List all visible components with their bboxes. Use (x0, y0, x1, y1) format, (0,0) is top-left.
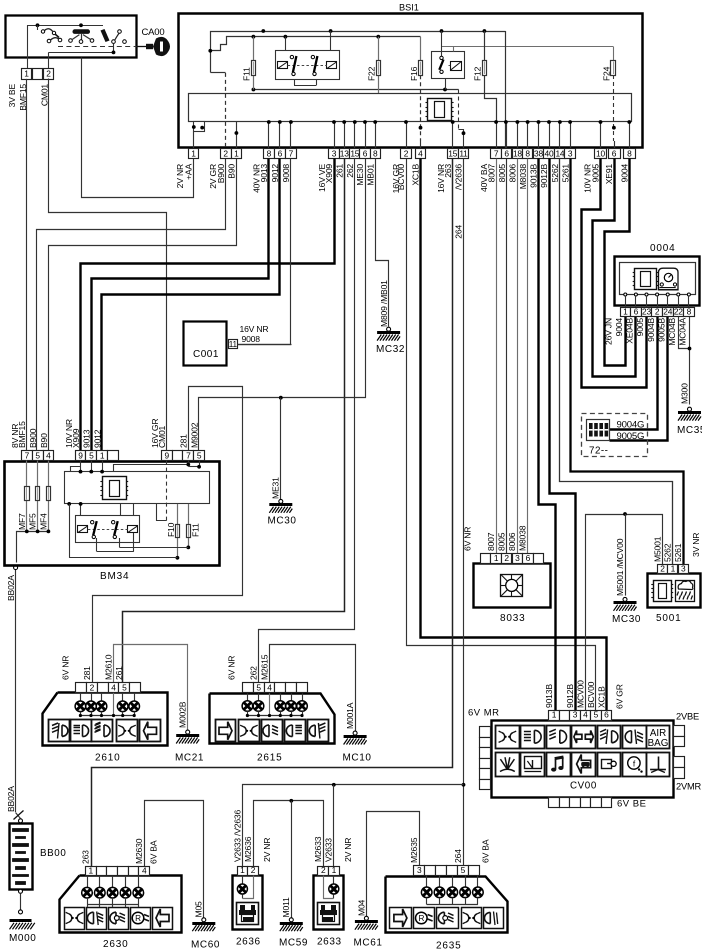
wire 9004 (thick) (605, 159, 630, 366)
svg-text:8033: 8033 (500, 613, 525, 624)
svg-text:M05: M05 (194, 901, 204, 918)
ground MC59 (M011) (289, 918, 293, 922)
svg-text:72--: 72-- (589, 446, 608, 457)
BM34 inner logic box (65, 472, 210, 504)
wire ME31 drop to ground MC30 (280, 398, 282, 500)
BSI connector band (189, 94, 632, 122)
svg-text:2615: 2615 (257, 753, 282, 764)
CV00 top pin row (1,3,4,5,6) (549, 711, 560, 721)
svg-text:262: 262 (249, 666, 259, 680)
svg-text:14: 14 (555, 148, 564, 158)
svg-text:M9002: M9002 (190, 422, 200, 448)
2635 icon reversing lamp (414, 908, 435, 929)
wire 9012B (thick) (550, 159, 576, 711)
CV00 right connector cells 2VMR (674, 757, 685, 768)
svg-text:5: 5 (89, 450, 94, 460)
svg-text:5261: 5261 (673, 543, 683, 562)
wire 5262 (560, 159, 673, 565)
wire 262 (259, 159, 355, 683)
wire 263 (92, 159, 453, 867)
svg-text:26V JN: 26V JN (604, 318, 614, 345)
svg-text:11: 11 (229, 340, 238, 349)
2610 icon turn signal left (140, 720, 161, 742)
2615 icon fog lamp right (308, 720, 329, 742)
ground MC60 (M05) (202, 918, 206, 922)
2630 icon position lamp (65, 908, 85, 930)
svg-text:1: 1 (24, 69, 29, 79)
BM34 pin stubs to logic box (80, 461, 82, 472)
svg-text:5: 5 (594, 710, 599, 720)
ground MC21 (M002B) (186, 730, 190, 734)
svg-text:R: R (418, 914, 424, 923)
wire XE91 (thick) (593, 159, 636, 377)
svg-text:40: 40 (545, 148, 554, 158)
svg-text:24: 24 (663, 306, 672, 316)
svg-text:M2635: M2635 (409, 837, 419, 863)
svg-text:MC04B: MC04B (667, 318, 677, 346)
svg-text:6V BE: 6V BE (617, 799, 646, 810)
svg-text:2: 2 (321, 865, 326, 875)
2610 icon low beam (71, 720, 92, 742)
chip icon in 0004 (635, 269, 657, 290)
svg-text:4: 4 (142, 865, 147, 875)
CV00 right connector cells 2VBE (674, 726, 685, 737)
switch module CM01/BMF15 block (6, 16, 137, 58)
wire 281 (93, 387, 243, 683)
svg-text:9008: 9008 (242, 334, 261, 344)
svg-text:8: 8 (267, 148, 272, 158)
svg-text:ME30: ME30 (355, 164, 365, 186)
svg-text:3: 3 (515, 553, 520, 563)
ground MC35 (M300) (688, 407, 692, 411)
fuse MF5 (37, 461, 39, 532)
2635 icon turn signal right (390, 908, 412, 929)
fuse F11 (BM34) (188, 504, 190, 548)
svg-text:9004G: 9004G (617, 420, 645, 431)
ground M000 (19, 910, 23, 914)
svg-text:5: 5 (197, 450, 202, 460)
svg-text:M5001: M5001 (652, 536, 662, 562)
2615 internal bus (247, 715, 302, 717)
2610 bulbs (80, 693, 82, 701)
svg-text:MC30: MC30 (612, 614, 641, 625)
2635 icon rear fog (484, 908, 504, 929)
svg-text:F22: F22 (367, 66, 377, 81)
svg-text:CM01: CM01 (157, 425, 167, 448)
CV00 icon rear fog (623, 726, 647, 749)
BSI pin row group 16V GR (pins 2,4) (401, 149, 412, 159)
0004 pin stubs (624, 293, 627, 296)
svg-text:0004: 0004 (650, 243, 675, 254)
wire 261 (123, 159, 345, 683)
svg-text:2630: 2630 (103, 939, 128, 950)
svg-text:6: 6 (604, 710, 609, 720)
svg-text:B900: B900 (216, 164, 226, 184)
svg-text:MC30: MC30 (268, 516, 297, 527)
svg-text:MC61: MC61 (354, 938, 383, 949)
svg-text:6V NR: 6V NR (227, 656, 237, 680)
svg-text:C001: C001 (193, 349, 219, 360)
wire XC1B (thick) (421, 159, 607, 711)
svg-text:2: 2 (46, 69, 51, 79)
svg-text:11: 11 (459, 148, 468, 158)
svg-text:2633: 2633 (317, 937, 342, 948)
module 2636 outline (233, 876, 263, 930)
wire 264 / V2636 / V2633 net (463, 159, 465, 866)
wire to key switch (dashed) (58, 46, 137, 48)
svg-text:5: 5 (122, 683, 127, 693)
switch S2 (wiper stalk) (73, 29, 91, 34)
svg-text:5: 5 (256, 683, 261, 693)
wire ME30 / M9002 ground net (199, 159, 366, 451)
module 0004 outline (615, 257, 700, 306)
svg-text:2: 2 (660, 564, 665, 574)
svg-text:1: 1 (191, 148, 196, 158)
svg-text:7: 7 (289, 148, 294, 158)
BSI pin row group 2V GR (pins 2,1) (221, 149, 232, 159)
svg-text:9005: 9005 (635, 318, 645, 337)
BM34 internal stub 281/M9002 (114, 465, 189, 472)
svg-text:6: 6 (612, 148, 617, 158)
BSI pin row group 40V BA (pins 7,6,18,8,38,40,14,3) (491, 149, 502, 159)
module 2635 outline (386, 877, 508, 933)
wire BB02A battery feed (15, 570, 17, 812)
wire battery to ground M000 (19, 889, 23, 893)
svg-text:9012B: 9012B (565, 684, 575, 708)
svg-text:9012: 9012 (93, 429, 103, 448)
fuse F22 (378, 37, 380, 93)
2615 icon turn signal right (216, 720, 236, 742)
svg-text:MB01: MB01 (365, 164, 375, 186)
svg-text:F24: F24 (602, 66, 612, 81)
svg-text:XC1B: XC1B (596, 686, 606, 708)
svg-text:9013B: 9013B (544, 684, 554, 708)
svg-text:MC60: MC60 (191, 940, 220, 951)
svg-text:MC10: MC10 (343, 753, 372, 764)
svg-text:7: 7 (25, 450, 30, 460)
CV00 icon AIRBAG (647, 726, 670, 749)
svg-text:M2615: M2615 (260, 654, 270, 680)
svg-text:8006: 8006 (508, 164, 518, 183)
0004 pin row (1,6,23,2,24,22,8) (621, 308, 631, 317)
svg-text:V2633 /V2636: V2633 /V2636 (232, 810, 242, 862)
rain icon in 5001 (676, 581, 695, 602)
svg-text:5001: 5001 (656, 613, 681, 624)
svg-text:BB02A: BB02A (6, 575, 16, 601)
svg-text:263: 263 (443, 164, 453, 178)
wire M2635 / M04 to MC61 (367, 812, 420, 918)
lamp icon in 8033 (501, 575, 523, 597)
svg-text:3: 3 (573, 710, 578, 720)
svg-text:F16: F16 (409, 66, 419, 81)
wire BCV00 (407, 159, 596, 711)
wire 8007 (496, 159, 498, 554)
2610 icon position lamp (117, 720, 138, 742)
svg-text:8007: 8007 (486, 532, 496, 551)
svg-text:5262: 5262 (663, 543, 673, 562)
svg-text:4: 4 (267, 683, 272, 693)
wire internal top rail (27, 25, 103, 27)
svg-text:6: 6 (526, 553, 531, 563)
svg-text:8005: 8005 (496, 532, 506, 551)
CV00 icon rear wiper (521, 753, 545, 777)
BSI pin row group 16V NR (pins 15,11) (448, 149, 459, 159)
svg-text:2: 2 (223, 148, 228, 158)
svg-text:1: 1 (623, 306, 628, 316)
svg-text:6V BA: 6V BA (481, 839, 491, 863)
module CV00 outline (492, 721, 674, 798)
svg-text:4: 4 (111, 683, 116, 693)
svg-text:2V NR: 2V NR (262, 838, 272, 862)
wire M2636 / M2633 / M011 ground net (254, 801, 324, 867)
2633 pin row (2,1) (318, 867, 329, 876)
svg-text:M2630: M2630 (134, 838, 144, 864)
wire MB01 to MC32 (376, 159, 389, 327)
CV00 icon chime (547, 753, 571, 777)
wire B90 (49, 159, 237, 451)
svg-text:9013: 9013 (82, 429, 92, 448)
BM34 pin row group 281/M9002 (pins 7,5) (183, 451, 194, 461)
2630 icon turn signal left (153, 908, 173, 930)
wire M011 drop to MC59 (291, 801, 293, 919)
BSI internal rail R4 (253, 89, 458, 91)
wire 9004B / 9004G (thick) (610, 317, 658, 430)
svg-text:264: 264 (453, 849, 463, 863)
svg-text:38: 38 (534, 148, 543, 158)
wire 9008 riser (238, 344, 292, 346)
svg-text:XE91: XE91 (604, 164, 614, 185)
svg-text:B90: B90 (39, 433, 49, 448)
svg-text:M000: M000 (9, 933, 36, 944)
svg-text:X909: X909 (324, 164, 334, 184)
module 8033 (474, 564, 551, 608)
wire MF bus to BB02A (17, 532, 49, 563)
2630 icon tail lamp (109, 908, 129, 930)
svg-text:F11: F11 (191, 523, 201, 537)
svg-text:CV00: CV00 (570, 781, 597, 792)
svg-text:6: 6 (634, 306, 639, 316)
svg-text:9012B: 9012B (539, 164, 549, 188)
svg-text:M001A: M001A (345, 702, 355, 729)
relay box A (BSI) (285, 37, 287, 51)
svg-text:M2633: M2633 (313, 836, 323, 862)
BSI pin stubs and junctions (268, 122, 270, 148)
wire 9005 (thick) (582, 159, 647, 388)
connector C001 (184, 322, 227, 366)
svg-text:9004B: 9004B (646, 318, 656, 342)
wire CM01 (49, 79, 167, 451)
module 2615 outline (210, 694, 335, 744)
svg-text:9008: 9008 (281, 164, 291, 183)
wire 8006 (517, 159, 519, 554)
svg-text:M8038: M8038 (518, 164, 528, 190)
wire +AA (82, 58, 194, 198)
wires below relay A (294, 80, 296, 86)
CV00 icon f-regulator (623, 753, 647, 777)
svg-text:BMF15: BMF15 (17, 421, 27, 448)
svg-text:XE04B: XE04B (625, 318, 635, 344)
svg-text:2635: 2635 (436, 941, 461, 951)
wire M5001 / MCV00 net (586, 515, 663, 711)
wire 9013 (thick) (92, 159, 269, 451)
fuse MF7 (26, 461, 28, 532)
svg-text:261: 261 (114, 666, 124, 680)
wire relay B to pin 11 (dashed) (445, 79, 447, 90)
gauge icon in 0004 (659, 268, 679, 290)
2633 pump icon (318, 903, 340, 925)
svg-text:M04: M04 (356, 899, 366, 916)
svg-text:MCV00: MCV00 (575, 680, 585, 708)
2610 internal bus (80, 715, 134, 717)
2636 pump icon (237, 903, 259, 925)
svg-text:1: 1 (240, 865, 245, 875)
svg-text:1: 1 (552, 710, 557, 720)
2635 internal bus (427, 904, 478, 906)
svg-text:6: 6 (504, 148, 509, 158)
module 2610 outline (43, 693, 168, 746)
svg-text:8: 8 (525, 148, 530, 158)
2615 bulbs (247, 693, 249, 701)
svg-text:MC04A: MC04A (678, 318, 688, 346)
svg-text:9: 9 (164, 450, 169, 460)
wire 9008 to C001 (238, 159, 291, 345)
wire CM01 internal (dashed) (166, 461, 168, 521)
svg-text:5262: 5262 (550, 164, 560, 183)
ground MC30 (ME31) (279, 499, 283, 503)
svg-text:6V BA: 6V BA (148, 840, 158, 864)
fuse F10 (BM34) (177, 504, 179, 558)
svg-text:M2610: M2610 (103, 654, 113, 680)
svg-text:MC32: MC32 (376, 344, 405, 355)
svg-text:BB02A: BB02A (6, 786, 16, 812)
svg-text:R: R (135, 914, 141, 923)
svg-text:6: 6 (278, 148, 283, 158)
svg-text:CA00: CA00 (142, 27, 165, 38)
svg-text:2V NR: 2V NR (343, 838, 353, 862)
BM34 pin row group 10V NR (pins 9,5,1) (76, 451, 86, 461)
CV00 icon low beam (521, 726, 545, 749)
svg-text:2VBE: 2VBE (676, 712, 699, 722)
svg-text:13: 13 (340, 148, 349, 158)
2630 bulbs (87, 876, 89, 888)
svg-text:2: 2 (655, 306, 660, 316)
svg-text:3: 3 (417, 865, 422, 875)
svg-text:MC59: MC59 (279, 938, 308, 949)
svg-text:5261: 5261 (560, 164, 570, 183)
svg-text:X909: X909 (71, 428, 81, 448)
svg-text:3: 3 (681, 564, 686, 574)
wire M2630 to MC60 (145, 801, 204, 919)
svg-text:2VMR: 2VMR (676, 782, 702, 792)
svg-text:15: 15 (350, 148, 359, 158)
svg-text:9005G: 9005G (617, 431, 645, 442)
CV00 icon front fog (598, 726, 621, 749)
svg-text:BSI1: BSI1 (399, 3, 419, 13)
wire 9005B / 9005G (thick) (610, 317, 668, 441)
BSI internal rail R3 (442, 46, 614, 48)
svg-text:F10: F10 (166, 522, 176, 537)
svg-text:M300: M300 (679, 383, 689, 404)
module 2633 outline (314, 876, 344, 930)
svg-text:M2636: M2636 (243, 836, 253, 862)
2610 icon high beam (92, 720, 113, 742)
svg-text:4: 4 (418, 148, 423, 158)
svg-text:2610: 2610 (95, 753, 120, 764)
svg-text:1: 1 (671, 564, 676, 574)
svg-text:1: 1 (100, 450, 105, 460)
svg-text:XC1B: XC1B (411, 164, 421, 186)
BSI pin row group 10V NR (pins 10,6,8) (595, 149, 607, 159)
wire M2610 to MC21 (114, 645, 188, 731)
svg-text:6V NR: 6V NR (462, 527, 472, 551)
svg-text:9: 9 (78, 450, 83, 460)
svg-text:F11: F11 (242, 67, 252, 81)
ground MC10 (M001A) (353, 731, 357, 735)
ground MC30 (M5001 /MCV00) (623, 597, 627, 601)
svg-text:M5001 /MCV00: M5001 /MCV00 (615, 538, 625, 596)
2615 pin row (5,4) (243, 683, 254, 693)
DIP switch icon (587, 420, 610, 441)
svg-text:3V NR: 3V NR (691, 533, 701, 557)
wire R1 drop to 8005 pin (505, 31, 507, 148)
wire 5261 (thick) (571, 159, 684, 565)
BSI1 block outline (179, 14, 643, 148)
2635 icon position lamp (462, 908, 482, 929)
wire M2615 to MC10 (270, 645, 356, 732)
svg-text:263: 263 (81, 850, 91, 864)
svg-text:BCV00: BCV00 (396, 164, 406, 191)
svg-text:2: 2 (90, 683, 95, 693)
svg-text:B900: B900 (28, 428, 38, 448)
svg-text:4: 4 (583, 710, 588, 720)
BSI pin row group 2V NR (pin 1) (189, 149, 199, 159)
wire 9013B (thick) (539, 159, 556, 711)
svg-text:3: 3 (568, 148, 573, 158)
svg-text:9005: 9005 (591, 164, 601, 183)
fuse F24 (613, 47, 615, 61)
svg-text:8007: 8007 (486, 164, 496, 183)
svg-text:8: 8 (373, 148, 378, 158)
BSI internal bus rail R1 (211, 32, 506, 73)
svg-text:MF7: MF7 (17, 513, 27, 530)
svg-text:7: 7 (186, 450, 191, 460)
svg-text:M8038: M8038 (517, 525, 527, 551)
svg-text:V2633: V2633 (324, 838, 334, 862)
CV00 icon position lamps (496, 726, 520, 749)
svg-text:ME31: ME31 (271, 477, 281, 499)
svg-text:8: 8 (687, 306, 692, 316)
2630 icon reversing lamp (131, 908, 151, 930)
wire BMF15 (26, 79, 28, 450)
wire 8005 (506, 159, 508, 554)
ground MC61 (M04) (364, 916, 368, 920)
svg-text:10: 10 (596, 148, 605, 158)
svg-text:2636: 2636 (236, 937, 261, 948)
battery BB00 (10, 824, 33, 890)
2610 pin row (2,4,5) (76, 683, 87, 693)
wire MC04B (679, 317, 690, 349)
svg-text:2: 2 (504, 553, 509, 563)
svg-text:2: 2 (251, 865, 256, 875)
wire MC04A / M300 to MC35 (689, 316, 691, 405)
wire internal bottom rail (49, 52, 114, 54)
2635 pin row (3,5) (414, 866, 425, 876)
CV00 icon turn signals (572, 726, 596, 749)
svg-text:MC35: MC35 (677, 425, 702, 436)
svg-text:9005B: 9005B (656, 318, 666, 342)
svg-text:281: 281 (179, 434, 189, 448)
svg-text:MF5: MF5 (28, 513, 38, 530)
